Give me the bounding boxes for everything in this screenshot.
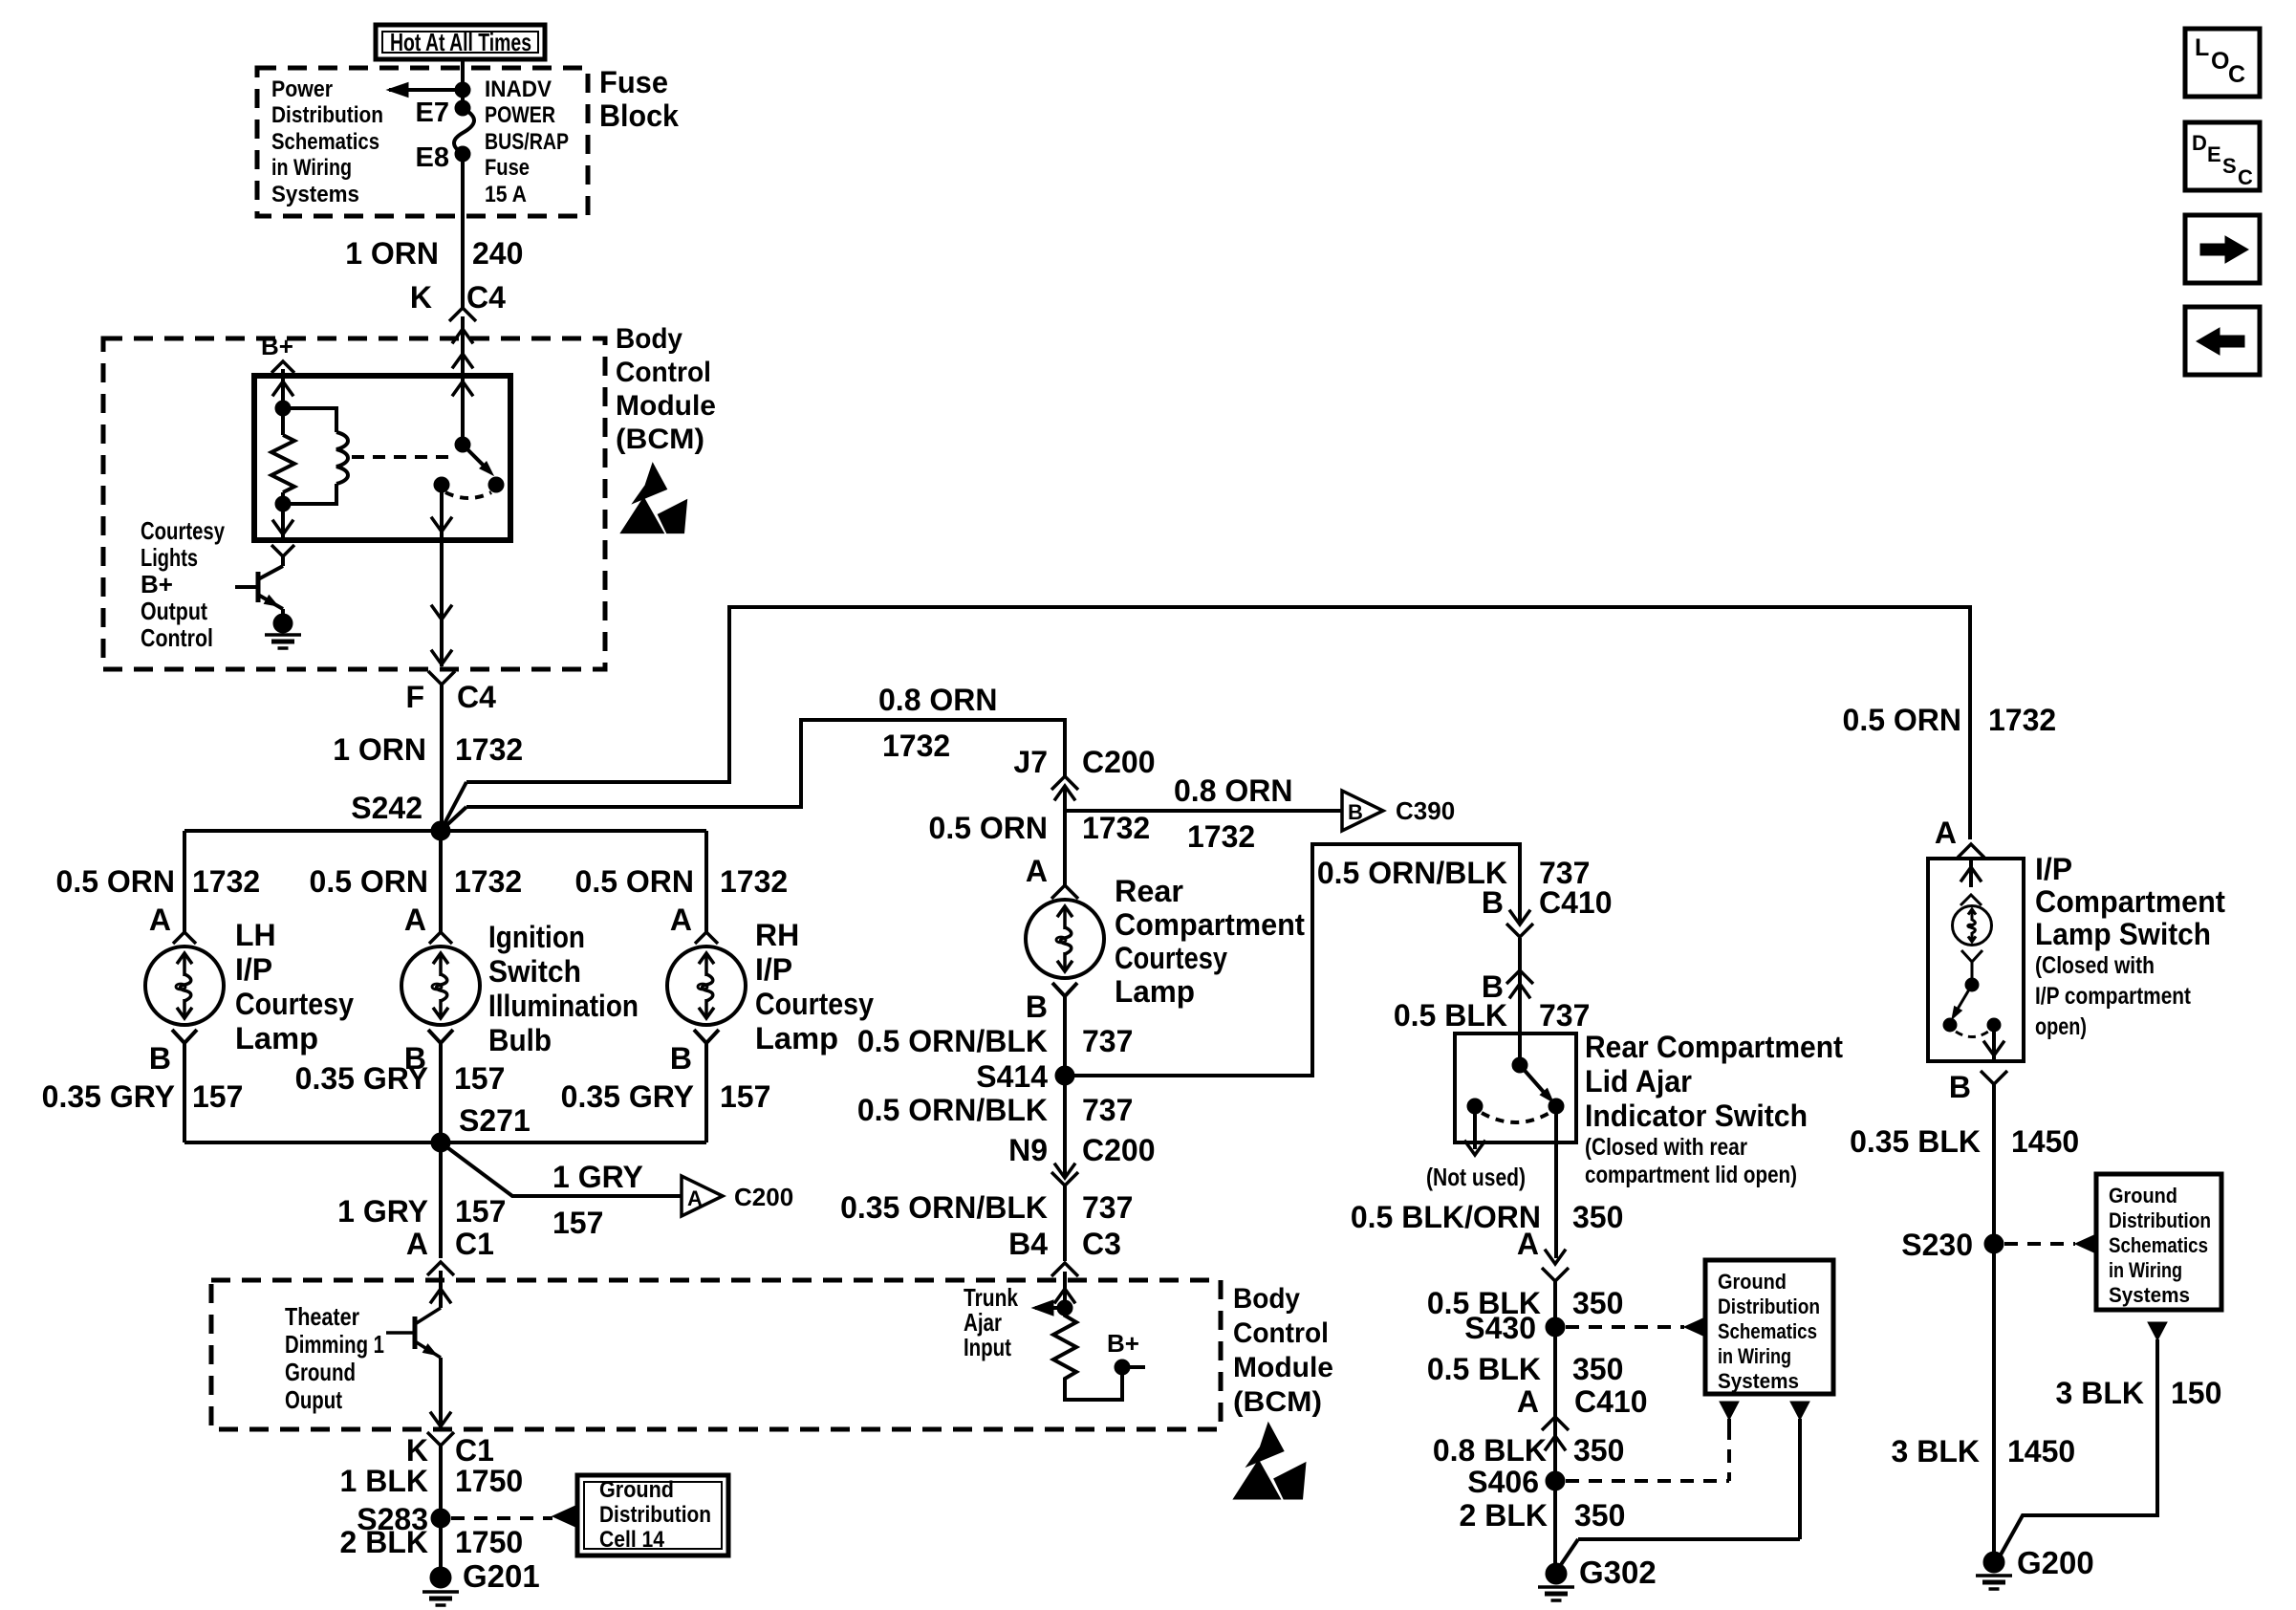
svg-text:Compartment: Compartment	[1115, 907, 1305, 942]
svg-text:Distribution: Distribution	[599, 1502, 711, 1528]
svg-text:S414: S414	[976, 1059, 1048, 1094]
svg-text:S430: S430	[1464, 1311, 1536, 1345]
svg-text:D: D	[2192, 131, 2207, 155]
svg-text:Body: Body	[1233, 1283, 1300, 1315]
svg-text:G201: G201	[463, 1558, 540, 1594]
svg-text:Compartment: Compartment	[2035, 884, 2225, 919]
svg-text:Input: Input	[964, 1333, 1011, 1361]
svg-text:0.8 ORN: 0.8 ORN	[1174, 773, 1292, 808]
svg-text:RH: RH	[755, 918, 799, 952]
svg-text:157: 157	[720, 1079, 770, 1114]
svg-text:Courtesy: Courtesy	[755, 987, 874, 1021]
svg-text:Cell 14: Cell 14	[599, 1527, 665, 1553]
svg-text:N9: N9	[1008, 1133, 1048, 1167]
svg-text:Dimming 1: Dimming 1	[285, 1330, 384, 1359]
svg-text:C390: C390	[1396, 796, 1455, 825]
svg-text:J7: J7	[1013, 745, 1048, 779]
svg-text:B: B	[1482, 885, 1504, 920]
svg-text:Courtesy: Courtesy	[141, 516, 225, 545]
svg-text:150: 150	[2171, 1376, 2221, 1410]
svg-text:1450: 1450	[2011, 1124, 2079, 1159]
svg-text:Distribution: Distribution	[2109, 1208, 2211, 1232]
svg-text:0.5 BLK: 0.5 BLK	[1394, 998, 1507, 1033]
svg-text:(BCM): (BCM)	[616, 424, 704, 455]
svg-text:G200: G200	[2017, 1545, 2094, 1580]
svg-text:E7: E7	[416, 98, 449, 128]
svg-text:A: A	[1517, 1384, 1539, 1419]
svg-text:0.5 ORN: 0.5 ORN	[56, 864, 175, 899]
svg-text:Courtesy: Courtesy	[1115, 941, 1227, 975]
svg-text:0.35 GRY: 0.35 GRY	[42, 1079, 175, 1114]
svg-text:Systems: Systems	[1718, 1369, 1799, 1393]
svg-text:1732: 1732	[1187, 819, 1255, 854]
svg-text:I/P compartment: I/P compartment	[2035, 983, 2192, 1010]
svg-text:1732: 1732	[454, 864, 522, 899]
svg-text:Rear Compartment: Rear Compartment	[1585, 1030, 1843, 1064]
svg-text:737: 737	[1539, 998, 1590, 1033]
svg-text:Lamp: Lamp	[755, 1021, 838, 1055]
svg-text:350: 350	[1572, 1286, 1623, 1320]
svg-text:C: C	[2228, 61, 2245, 88]
svg-text:Lamp: Lamp	[1115, 974, 1195, 1009]
svg-text:B: B	[670, 1041, 692, 1076]
svg-text:O: O	[2211, 48, 2229, 75]
svg-text:Systems: Systems	[2109, 1283, 2190, 1307]
svg-text:0.35 GRY: 0.35 GRY	[295, 1061, 428, 1096]
svg-text:0.5 ORN/BLK: 0.5 ORN/BLK	[857, 1024, 1048, 1058]
svg-text:C410: C410	[1574, 1384, 1648, 1419]
svg-text:Control: Control	[1233, 1317, 1329, 1349]
svg-text:Control: Control	[141, 623, 213, 652]
svg-text:S242: S242	[351, 791, 422, 825]
svg-text:Ground: Ground	[1718, 1270, 1787, 1294]
svg-text:S406: S406	[1467, 1465, 1539, 1499]
svg-text:A: A	[687, 1186, 703, 1210]
svg-text:Distribution: Distribution	[1718, 1295, 1820, 1318]
svg-text:C3: C3	[1082, 1227, 1121, 1261]
svg-text:B: B	[1348, 800, 1363, 824]
svg-text:A: A	[149, 903, 171, 937]
svg-text:I/P: I/P	[2035, 852, 2072, 886]
svg-text:2 BLK: 2 BLK	[1460, 1498, 1548, 1533]
svg-text:G302: G302	[1579, 1555, 1657, 1590]
svg-text:0.35 ORN/BLK: 0.35 ORN/BLK	[840, 1190, 1048, 1225]
svg-text:0.5 ORN: 0.5 ORN	[310, 864, 428, 899]
svg-text:A: A	[670, 903, 692, 937]
svg-text:compartment lid open): compartment lid open)	[1585, 1162, 1797, 1188]
svg-text:0.5 BLK/ORN: 0.5 BLK/ORN	[1351, 1200, 1541, 1234]
svg-text:1 ORN: 1 ORN	[345, 236, 439, 271]
svg-text:A: A	[404, 903, 426, 937]
svg-text:Ground: Ground	[599, 1477, 674, 1503]
svg-text:Body: Body	[616, 323, 682, 355]
svg-text:1750: 1750	[455, 1464, 523, 1498]
svg-text:1732: 1732	[1082, 811, 1150, 845]
svg-text:Schematics: Schematics	[271, 129, 379, 155]
svg-text:C410: C410	[1539, 885, 1613, 920]
svg-text:157: 157	[192, 1079, 243, 1114]
svg-text:B: B	[1949, 1070, 1971, 1104]
svg-text:3 BLK: 3 BLK	[2056, 1376, 2144, 1410]
svg-text:1732: 1732	[720, 864, 788, 899]
svg-text:F: F	[405, 680, 424, 714]
svg-text:L: L	[2195, 34, 2209, 61]
svg-text:Systems: Systems	[271, 182, 359, 207]
svg-text:B+: B+	[141, 570, 173, 598]
svg-text:C1: C1	[455, 1433, 494, 1468]
svg-text:Schematics: Schematics	[1718, 1319, 1817, 1343]
svg-text:1 GRY: 1 GRY	[337, 1194, 428, 1229]
svg-text:BUS/RAP: BUS/RAP	[485, 129, 569, 155]
svg-text:Lamp Switch: Lamp Switch	[2035, 917, 2211, 951]
svg-text:Distribution: Distribution	[271, 102, 383, 128]
svg-text:1732: 1732	[455, 732, 523, 767]
svg-text:350: 350	[1572, 1352, 1623, 1386]
svg-text:0.35 BLK: 0.35 BLK	[1850, 1124, 1981, 1159]
svg-text:S230: S230	[1901, 1228, 1973, 1262]
svg-text:0.5 ORN/BLK: 0.5 ORN/BLK	[857, 1093, 1048, 1127]
svg-text:C200: C200	[734, 1183, 793, 1211]
svg-text:B4: B4	[1008, 1227, 1048, 1261]
svg-text:350: 350	[1574, 1498, 1625, 1533]
svg-text:E: E	[2207, 142, 2221, 166]
svg-text:POWER: POWER	[485, 102, 555, 128]
svg-text:350: 350	[1573, 1433, 1624, 1468]
svg-text:157: 157	[454, 1061, 505, 1096]
svg-text:0.5 ORN: 0.5 ORN	[575, 864, 694, 899]
svg-text:K: K	[406, 1433, 428, 1468]
svg-text:Ground: Ground	[285, 1358, 356, 1386]
svg-text:Module: Module	[616, 390, 716, 422]
svg-text:LH: LH	[235, 918, 276, 952]
svg-text:1450: 1450	[2007, 1434, 2075, 1469]
svg-text:C: C	[2238, 165, 2253, 189]
svg-text:1732: 1732	[1988, 703, 2056, 737]
svg-text:Block: Block	[599, 98, 679, 133]
svg-text:1 BLK: 1 BLK	[340, 1464, 428, 1498]
svg-text:(Not used): (Not used)	[1426, 1163, 1526, 1191]
svg-text:Lid Ajar: Lid Ajar	[1585, 1064, 1692, 1099]
svg-text:K: K	[410, 280, 432, 315]
svg-text:E8: E8	[416, 142, 449, 173]
svg-text:Ignition: Ignition	[488, 920, 585, 954]
svg-text:Control: Control	[616, 357, 711, 388]
svg-text:A: A	[1935, 816, 1957, 850]
svg-text:C200: C200	[1082, 745, 1156, 779]
svg-text:Indicator Switch: Indicator Switch	[1585, 1099, 1808, 1133]
svg-text:C4: C4	[466, 280, 506, 315]
svg-text:B+: B+	[1107, 1329, 1139, 1358]
svg-text:Hot At All Times: Hot At All Times	[390, 28, 531, 56]
svg-text:B+: B+	[261, 332, 293, 360]
svg-text:C200: C200	[1082, 1133, 1156, 1167]
svg-text:S271: S271	[459, 1103, 531, 1138]
svg-text:Power: Power	[271, 76, 333, 102]
svg-text:in Wiring: in Wiring	[1718, 1344, 1791, 1368]
svg-text:0.5 ORN: 0.5 ORN	[929, 811, 1048, 845]
svg-text:0.35 GRY: 0.35 GRY	[561, 1079, 694, 1114]
svg-text:in Wiring: in Wiring	[271, 155, 352, 181]
svg-text:0.8 BLK: 0.8 BLK	[1433, 1433, 1547, 1468]
svg-text:(Closed with: (Closed with	[2035, 952, 2155, 979]
svg-text:Lamp: Lamp	[235, 1021, 318, 1055]
svg-text:I/P: I/P	[755, 952, 792, 987]
svg-text:Lights: Lights	[141, 543, 198, 572]
svg-text:Output: Output	[141, 597, 207, 625]
svg-text:Courtesy: Courtesy	[235, 987, 354, 1021]
svg-text:Ground: Ground	[2109, 1184, 2177, 1207]
svg-text:3 BLK: 3 BLK	[1892, 1434, 1980, 1469]
svg-text:A: A	[406, 1227, 428, 1261]
svg-text:15 A: 15 A	[485, 182, 527, 207]
svg-text:Fuse: Fuse	[485, 155, 530, 181]
svg-text:S: S	[2222, 154, 2237, 178]
svg-text:Switch: Switch	[488, 954, 581, 989]
svg-text:1732: 1732	[192, 864, 260, 899]
svg-text:1750: 1750	[455, 1525, 523, 1559]
svg-text:Module: Module	[1233, 1352, 1333, 1383]
svg-text:(Closed with rear: (Closed with rear	[1585, 1134, 1747, 1161]
svg-text:0.5 BLK: 0.5 BLK	[1427, 1352, 1541, 1386]
svg-text:240: 240	[472, 236, 523, 271]
svg-text:157: 157	[552, 1206, 603, 1240]
svg-text:(BCM): (BCM)	[1233, 1386, 1322, 1418]
svg-text:A: A	[1517, 1227, 1539, 1261]
svg-text:0.8 ORN: 0.8 ORN	[878, 683, 997, 717]
svg-text:C1: C1	[455, 1227, 494, 1261]
svg-text:A: A	[1026, 854, 1048, 888]
svg-text:INADV: INADV	[485, 76, 552, 102]
svg-text:1 ORN: 1 ORN	[333, 732, 426, 767]
svg-text:Illumination: Illumination	[488, 989, 639, 1023]
svg-text:in Wiring: in Wiring	[2109, 1258, 2182, 1282]
svg-text:737: 737	[1082, 1190, 1133, 1225]
svg-text:1732: 1732	[882, 729, 950, 763]
svg-text:Rear: Rear	[1115, 874, 1183, 908]
svg-text:737: 737	[1082, 1024, 1133, 1058]
svg-text:350: 350	[1572, 1200, 1623, 1234]
svg-text:C4: C4	[457, 680, 496, 714]
svg-text:0.5 ORN/BLK: 0.5 ORN/BLK	[1317, 856, 1507, 890]
svg-text:157: 157	[455, 1194, 506, 1229]
svg-text:Schematics: Schematics	[2109, 1233, 2208, 1257]
svg-text:0.5 ORN: 0.5 ORN	[1843, 703, 1961, 737]
svg-text:B: B	[1026, 990, 1048, 1024]
svg-text:Ouput: Ouput	[285, 1385, 342, 1414]
svg-text:Theater: Theater	[285, 1302, 359, 1331]
svg-text:I/P: I/P	[235, 952, 272, 987]
svg-text:B: B	[149, 1041, 171, 1076]
svg-text:737: 737	[1082, 1093, 1133, 1127]
svg-text:Bulb: Bulb	[488, 1023, 552, 1057]
svg-text:2 BLK: 2 BLK	[340, 1525, 428, 1559]
svg-text:Fuse: Fuse	[599, 65, 668, 99]
svg-text:1 GRY: 1 GRY	[552, 1160, 643, 1194]
svg-text:open): open)	[2035, 1013, 2087, 1040]
